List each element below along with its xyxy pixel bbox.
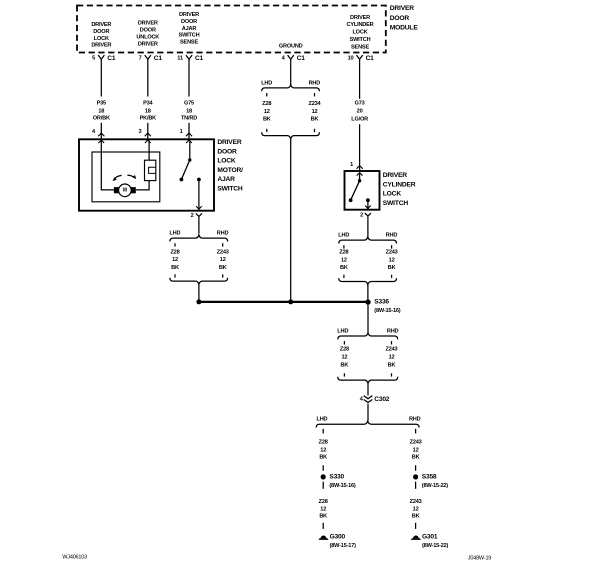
wire stub RHD upper of motor pin2 circuit	[222, 243, 224, 246]
svg-text:SWITCH: SWITCH	[350, 37, 371, 43]
svg-text:12: 12	[389, 355, 395, 361]
svg-text:(8W-15-16): (8W-15-16)	[374, 308, 401, 314]
svg-text:DRIVER: DRIVER	[383, 172, 407, 179]
junction node motor branch	[196, 299, 201, 304]
svg-text:12: 12	[264, 109, 270, 115]
svg-text:LOCK: LOCK	[217, 158, 236, 165]
svg-text:7: 7	[139, 55, 142, 61]
svg-text:LOCK: LOCK	[383, 191, 402, 198]
svg-text:S330: S330	[329, 474, 344, 481]
bus wire to splice S336	[199, 301, 368, 303]
svg-text:Z28: Z28	[319, 439, 328, 445]
ajar switch wire from pin 1	[189, 140, 191, 160]
wire S336 down	[367, 305, 369, 333]
brace (LHD/RHD split) top of cylinder switch circuit	[339, 237, 397, 244]
wire stub LHD below C302	[322, 429, 324, 434]
svg-text:CYLINDER: CYLINDER	[347, 22, 374, 28]
svg-text:Z243: Z243	[217, 249, 229, 255]
svg-text:C1: C1	[297, 55, 306, 62]
svg-text:12: 12	[341, 258, 347, 264]
svg-text:C1: C1	[195, 55, 204, 62]
brace (LHD/RHD merge) bottom of S336 to C302 circuit	[338, 377, 398, 384]
cylinder switch entry arrow	[357, 173, 363, 176]
wire G73 upper segment	[359, 62, 361, 98]
svg-text:(8W-15-22): (8W-15-22)	[422, 483, 449, 489]
wire stub RHD below C302	[415, 429, 417, 434]
wire stub LHD upper of S336 to C302 circuit	[343, 341, 345, 344]
wire C302 down	[367, 404, 369, 421]
svg-text:BK: BK	[388, 265, 396, 271]
svg-text:LHD: LHD	[169, 231, 180, 237]
svg-text:M: M	[123, 188, 127, 194]
ajar switch output contact	[197, 178, 201, 182]
svg-text:C1: C1	[107, 55, 116, 62]
svg-text:SENSE: SENSE	[180, 40, 198, 46]
svg-text:BK: BK	[319, 514, 327, 520]
wire stub RHD lower of S336 to C302 circuit	[391, 373, 393, 376]
svg-text:(8W-15-22): (8W-15-22)	[422, 543, 449, 549]
svg-text:BK: BK	[412, 455, 420, 461]
component box: driver door lock motor/ajar switch	[79, 139, 214, 210]
component box: driver cylinder lock switch	[345, 171, 380, 210]
svg-text:18: 18	[98, 108, 104, 114]
svg-text:DOOR: DOOR	[217, 148, 237, 155]
wire G75 18 TN/RD upper segment	[188, 62, 190, 96]
ajar switch output wire	[198, 180, 200, 211]
svg-text:DRIVER: DRIVER	[91, 43, 111, 49]
wire stub above S330	[322, 465, 324, 471]
svg-text:C1: C1	[154, 55, 163, 62]
svg-text:BK: BK	[340, 265, 348, 271]
entry arrow pin 3	[145, 140, 151, 143]
svg-text:S358: S358	[422, 474, 437, 481]
cylinder switch blade	[351, 181, 360, 201]
wire ground brace to bus	[290, 139, 292, 302]
wire stub RHD upper of cylinder switch circuit	[391, 245, 393, 248]
motor M1 left brush	[114, 187, 119, 193]
svg-text:12: 12	[320, 507, 326, 513]
brace (LHD/RHD split) top of S336 to C302 circuit	[338, 333, 398, 340]
wire stub above G300	[322, 523, 324, 529]
svg-text:DOOR: DOOR	[390, 15, 410, 22]
svg-text:LOCK: LOCK	[94, 36, 109, 42]
wire stub above G301	[415, 523, 417, 529]
svg-text:RHD: RHD	[386, 233, 398, 239]
wire stub LHD lower of cylinder switch circuit	[343, 275, 345, 278]
svg-text:DRIVER: DRIVER	[350, 15, 370, 21]
svg-text:12: 12	[312, 109, 318, 115]
svg-text:BK: BK	[311, 117, 319, 123]
junction node ground branch	[288, 299, 293, 304]
svg-text:WJ406103: WJ406103	[62, 554, 87, 560]
brace (LHD/RHD merge) bottom of motor pin2 circuit	[170, 278, 228, 285]
wire stub below S358	[415, 482, 417, 489]
svg-text:MODULE: MODULE	[390, 25, 419, 32]
ajar switch lower-left contact	[180, 178, 184, 182]
wire stub LHD upper of cylinder switch circuit	[343, 245, 345, 248]
svg-text:RHD: RHD	[387, 329, 399, 335]
svg-text:PK/BK: PK/BK	[140, 116, 157, 122]
wire P34 18 PK/BK upper segment	[147, 62, 149, 96]
svg-text:LHD: LHD	[317, 416, 328, 422]
brace (LHD/RHD split) top of ground circuit	[262, 85, 320, 92]
ground G300	[321, 536, 327, 539]
svg-text:P35: P35	[97, 100, 106, 106]
svg-text:DOOR: DOOR	[140, 28, 156, 34]
wire stub above S358	[415, 465, 417, 471]
svg-text:BK: BK	[412, 514, 420, 520]
wire stub below S330	[322, 482, 324, 489]
svg-text:BK: BK	[388, 363, 396, 369]
wire stub LHD lower of S336 to C302 circuit	[343, 373, 345, 376]
svg-text:3: 3	[138, 129, 141, 135]
svg-text:LHD: LHD	[338, 233, 349, 239]
wire ground pin 4 upper	[290, 62, 292, 84]
svg-text:C302: C302	[374, 396, 389, 403]
motor M1 right brush	[131, 187, 136, 193]
svg-text:G300: G300	[330, 533, 346, 540]
svg-text:AJAR: AJAR	[182, 26, 197, 32]
ground G301	[413, 536, 419, 539]
svg-text:2: 2	[191, 213, 194, 219]
svg-text:SENSE: SENSE	[351, 44, 369, 50]
svg-text:BK: BK	[319, 455, 327, 461]
svg-text:1: 1	[180, 129, 183, 135]
cylinder switch lower-left contact	[349, 198, 353, 202]
inner motor boundary box	[92, 152, 160, 202]
wire pin3 to lock actuator	[148, 140, 150, 160]
svg-text:12: 12	[413, 507, 419, 513]
svg-text:SWITCH: SWITCH	[383, 200, 409, 207]
svg-text:DRIVER: DRIVER	[91, 22, 111, 28]
entry arrow pin 1	[186, 140, 192, 143]
svg-text:UNLOCK: UNLOCK	[136, 35, 159, 41]
cylinder switch output contact	[366, 198, 370, 202]
wire stub RHD lower of ground circuit	[314, 129, 316, 132]
svg-text:1: 1	[350, 162, 353, 168]
brace (LHD/RHD split) top of motor pin2 circuit	[170, 235, 228, 242]
wire pin2 to LHD/RHD brace	[198, 220, 200, 234]
lock actuator position contact	[145, 160, 156, 180]
svg-text:4: 4	[360, 397, 364, 403]
svg-text:G75: G75	[184, 100, 194, 106]
svg-text:4: 4	[282, 55, 286, 61]
wire stub LHD lower of ground circuit	[266, 129, 268, 132]
svg-text:DRIVER: DRIVER	[138, 21, 158, 27]
svg-text:DRIVER: DRIVER	[217, 139, 241, 146]
svg-text:10: 10	[348, 55, 354, 61]
cylinder switch output wire	[367, 200, 369, 209]
svg-text:Z28: Z28	[340, 347, 349, 353]
wire brace to splice S336 bus	[198, 284, 200, 302]
svg-text:LG/OR: LG/OR	[351, 117, 368, 123]
svg-text:2: 2	[360, 213, 363, 219]
svg-text:18: 18	[145, 108, 151, 114]
svg-text:BK: BK	[171, 265, 179, 271]
wire pin2 to LHD/RHD brace (cylinder)	[367, 219, 369, 237]
svg-text:(8W-15-16): (8W-15-16)	[329, 483, 356, 489]
svg-text:Z28: Z28	[319, 499, 328, 505]
svg-text:20: 20	[357, 109, 363, 115]
brace (LHD/RHD merge) bottom of cylinder switch circuit	[339, 278, 397, 285]
svg-text:DRIVER: DRIVER	[138, 41, 158, 47]
svg-text:SWITCH: SWITCH	[179, 33, 200, 39]
wire P35 18 OR/BK upper segment	[100, 62, 102, 96]
wire P35 18 OR/BK lower segment	[100, 123, 102, 140]
wire pin4 to motor	[101, 140, 114, 190]
svg-text:12: 12	[413, 448, 419, 454]
svg-text:DRIVER: DRIVER	[179, 12, 199, 18]
svg-text:12: 12	[220, 257, 226, 263]
module box: DRIVER DOOR MODULE (dashed outline)	[77, 6, 386, 53]
svg-text:MOTOR/: MOTOR/	[217, 167, 243, 174]
svg-text:Z234: Z234	[309, 101, 322, 107]
ajar switch blade	[181, 160, 189, 180]
entry arrow pin 4	[98, 140, 104, 143]
wire brace to connector C302	[367, 383, 369, 395]
wire brace to splice S336	[367, 285, 369, 303]
wire stub RHD upper of ground circuit	[314, 93, 316, 96]
svg-text:CYLINDER: CYLINDER	[383, 182, 416, 189]
svg-text:G301: G301	[422, 533, 438, 540]
brace (LHD/RHD merge) bottom of ground circuit	[262, 132, 320, 139]
wire stub RHD lower of motor pin2 circuit	[222, 274, 224, 277]
svg-text:P34: P34	[143, 100, 153, 106]
svg-text:BK: BK	[341, 363, 349, 369]
splice S336	[365, 299, 370, 304]
svg-text:BK: BK	[263, 117, 271, 123]
ajar switch upper contact	[188, 158, 191, 161]
brace (LHD/RHD split) below C302	[316, 421, 419, 427]
rotation arc left with arrowhead	[114, 175, 122, 179]
wire stub RHD lower of cylinder switch circuit	[391, 275, 393, 278]
svg-text:12: 12	[389, 258, 395, 264]
svg-text:Z243: Z243	[410, 439, 422, 445]
svg-text:12: 12	[320, 448, 326, 454]
svg-text:S336: S336	[374, 299, 389, 306]
ajar switch exit arrow	[196, 206, 202, 209]
svg-text:(8W-15-17): (8W-15-17)	[330, 543, 357, 549]
wire stub LHD lower of motor pin2 circuit	[174, 274, 176, 277]
wire stub LHD upper of ground circuit	[266, 93, 268, 96]
svg-text:DOOR: DOOR	[93, 29, 109, 35]
svg-text:Z28: Z28	[262, 101, 271, 107]
svg-text:BK: BK	[219, 265, 227, 271]
splice S330	[321, 474, 326, 479]
wire G73 lower segment	[359, 124, 361, 171]
wire P34 18 PK/BK lower segment	[147, 123, 149, 140]
svg-text:Z28: Z28	[170, 249, 179, 255]
wire G75 18 TN/RD lower segment	[188, 123, 190, 140]
svg-text:LOCK: LOCK	[352, 30, 367, 36]
cylinder switch entry wire	[359, 173, 361, 181]
svg-text:SWITCH: SWITCH	[217, 185, 243, 192]
svg-text:Z243: Z243	[410, 499, 422, 505]
svg-text:18: 18	[186, 108, 192, 114]
wire stub LHD upper of motor pin2 circuit	[174, 243, 176, 246]
svg-text:RHD: RHD	[409, 416, 421, 422]
svg-text:TN/RD: TN/RD	[181, 116, 197, 122]
svg-text:11: 11	[177, 55, 183, 61]
svg-text:Z243: Z243	[386, 347, 398, 353]
svg-text:4: 4	[92, 129, 96, 135]
svg-text:AJAR: AJAR	[217, 176, 235, 183]
svg-text:DRIVER: DRIVER	[390, 5, 414, 12]
wire actuator to motor	[136, 181, 149, 190]
svg-text:Z28: Z28	[339, 249, 348, 255]
svg-text:RHD: RHD	[217, 231, 229, 237]
rotation arc right with arrowhead	[127, 175, 134, 178]
svg-text:RHD: RHD	[309, 81, 321, 87]
cylinder switch exit arrow	[365, 206, 371, 209]
svg-text:12: 12	[341, 355, 347, 361]
svg-text:DOOR: DOOR	[181, 19, 197, 25]
svg-text:Z243: Z243	[386, 249, 398, 255]
wire stub RHD upper of S336 to C302 circuit	[391, 341, 393, 344]
motor M1 body	[119, 184, 132, 197]
svg-text:C1: C1	[366, 55, 375, 62]
svg-text:J048W-19: J048W-19	[468, 555, 492, 561]
svg-text:LHD: LHD	[337, 329, 348, 335]
svg-text:5: 5	[92, 55, 95, 61]
splice S358	[413, 474, 418, 479]
svg-text:GROUND: GROUND	[279, 44, 303, 50]
svg-text:G73: G73	[355, 100, 365, 106]
cylinder switch upper contact	[358, 179, 361, 182]
svg-text:12: 12	[172, 257, 178, 263]
svg-text:LHD: LHD	[261, 81, 272, 87]
svg-text:OR/BK: OR/BK	[93, 116, 110, 122]
